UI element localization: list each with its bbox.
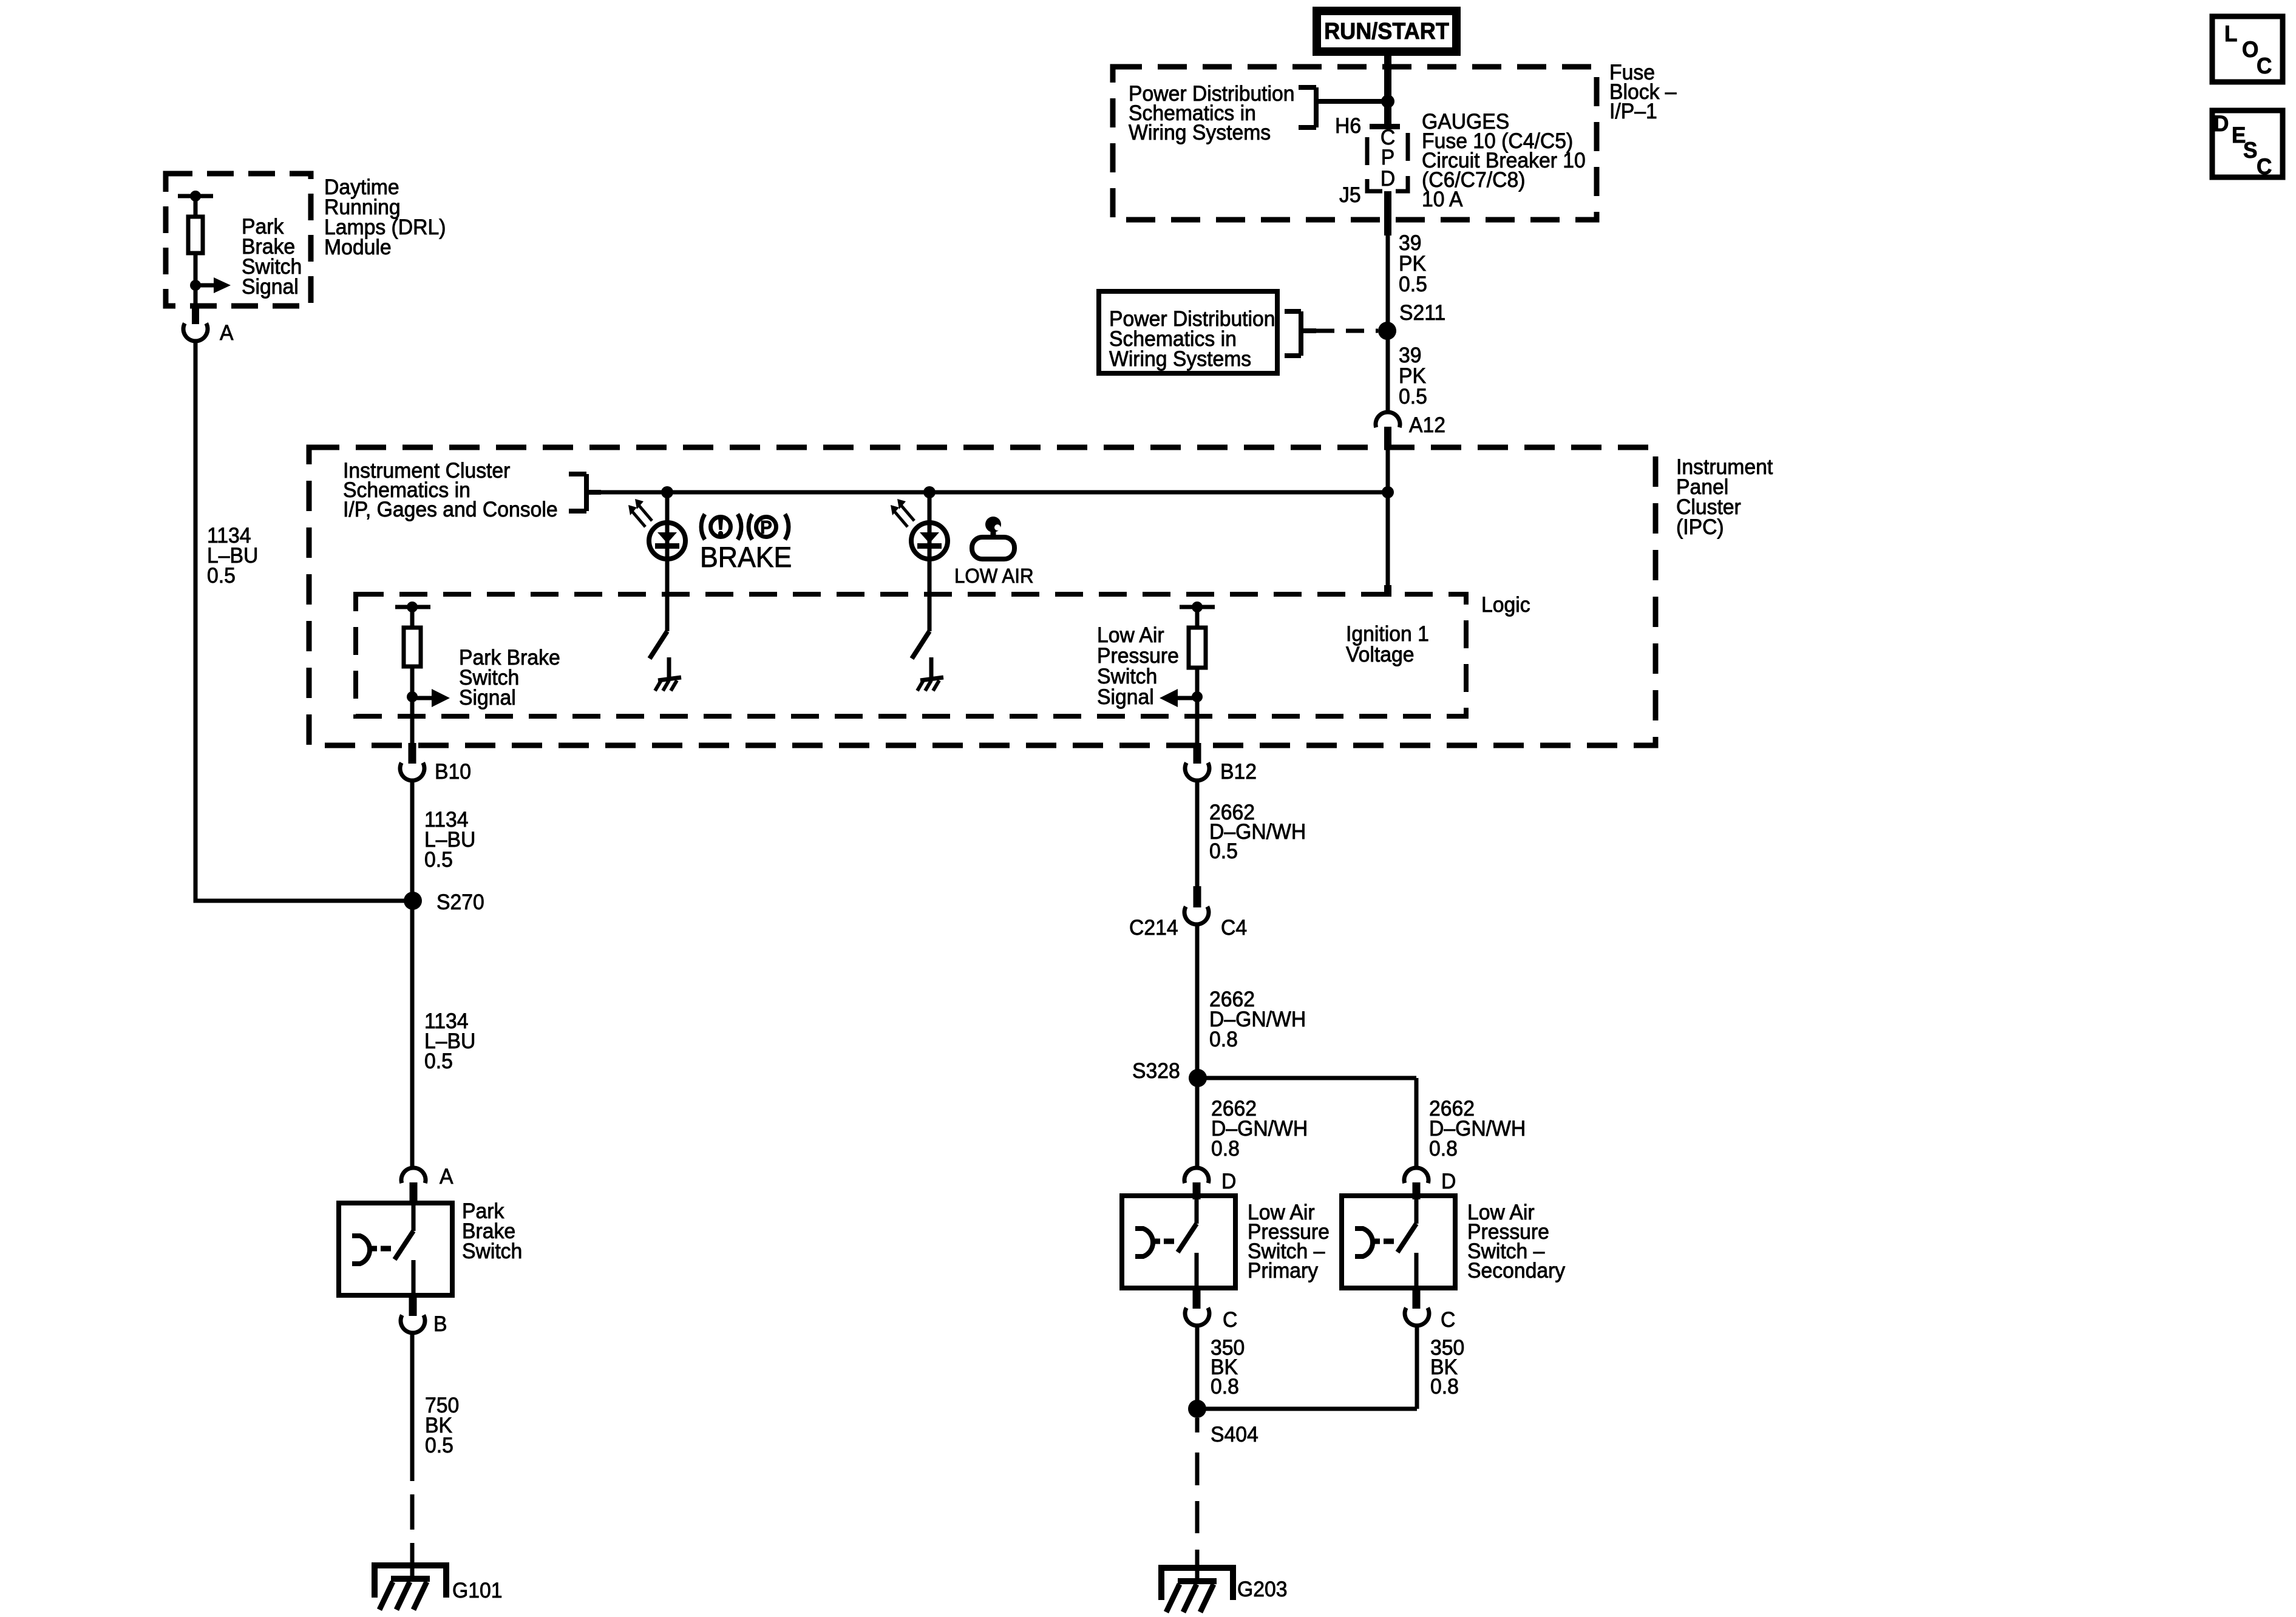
splice S328 (1189, 1069, 1207, 1087)
connector C (primary) (1193, 1288, 1201, 1309)
svg-text:(IPC): (IPC) (1676, 515, 1724, 539)
splice S211 (1378, 322, 1396, 340)
svg-text:S270: S270 (436, 890, 484, 914)
daytime running lamps (DRL) module dashed box (166, 174, 311, 306)
dashed wire S404 to G203 (1195, 1418, 1200, 1432)
inline connector C214 / C4 (1194, 886, 1201, 907)
connector A12 (1376, 412, 1400, 427)
node: low air lamp tap (923, 486, 936, 498)
svg-text:J5: J5 (1339, 183, 1361, 207)
LOC reference box (2212, 16, 2283, 82)
power distribution reference box (at S211) (1099, 291, 1277, 373)
bracket and dashed link to S211 (1299, 311, 1303, 356)
node + arrow: low air pressure switch signal (1192, 691, 1203, 702)
LED brake indicator (649, 523, 685, 559)
splice S404 (1197, 1407, 1417, 1411)
fuse/circuit-breaker CPD dashed element (1367, 133, 1408, 191)
svg-text:Signal: Signal (1097, 685, 1154, 709)
svg-text:0.5: 0.5 (424, 1049, 453, 1073)
wire DRL-A to S270 (195, 341, 413, 901)
wire bus to brake lamp (665, 492, 670, 631)
low air telltale icon (tank with gauge) (972, 517, 1014, 559)
connector B10 (409, 743, 416, 764)
svg-text:G101: G101 (452, 1579, 502, 1602)
svg-text:D: D (1381, 167, 1395, 191)
wire B12 to C214 (2662 D-GN/WH 0.5) (1195, 781, 1200, 887)
connector D (primary) (1184, 1168, 1209, 1183)
junction node on feed wire (1381, 95, 1394, 108)
svg-text:10 A: 10 A (1422, 188, 1463, 211)
svg-text:Module: Module (324, 236, 392, 259)
svg-text:D: D (1441, 1170, 1456, 1193)
svg-text:Wiring Systems: Wiring Systems (1109, 347, 1251, 371)
H6 terminal bar (1370, 124, 1400, 129)
brake lamp switch blade (650, 631, 667, 659)
svg-text:L: L (2224, 21, 2237, 46)
park brake switch box (339, 1203, 452, 1295)
ignition 1 voltage wire (1386, 449, 1390, 586)
low air lamp switch blade (912, 631, 929, 659)
connector D (secondary) (1404, 1168, 1428, 1183)
wire S270 to park brake switch (410, 901, 415, 1167)
brake telltale icon (711, 517, 731, 537)
ground G203 (1161, 1568, 1233, 1600)
svg-text:Voltage: Voltage (1346, 643, 1414, 666)
svg-text:C: C (2257, 53, 2272, 78)
svg-text:I/P–1: I/P–1 (1609, 100, 1657, 123)
svg-text:A: A (220, 321, 234, 345)
svg-text:D: D (2213, 110, 2229, 136)
node + arrow: park brake switch signal (407, 691, 418, 702)
svg-text:LOW AIR: LOW AIR (954, 564, 1034, 587)
connector B12 (1194, 743, 1201, 764)
branch wire to secondary switch (1198, 1076, 1416, 1080)
ground G101 (375, 1565, 446, 1598)
wire C primary to S404 (350 BK) (1195, 1326, 1200, 1409)
DESC reference box (2212, 110, 2283, 179)
svg-text:0.5: 0.5 (424, 848, 453, 872)
splice S270 (404, 892, 422, 910)
svg-text:Primary: Primary (1248, 1259, 1319, 1283)
svg-text:Wiring Systems: Wiring Systems (1129, 121, 1271, 144)
internal ground (low air lamp) (929, 657, 934, 679)
svg-text:S404: S404 (1211, 1423, 1258, 1446)
svg-text:B12: B12 (1220, 760, 1257, 784)
svg-text:A12: A12 (1409, 413, 1445, 437)
svg-text:0.5: 0.5 (425, 1434, 453, 1457)
wire J5 to S211 (ckt 39 PK) (1384, 191, 1391, 236)
park brake pull-up resistor (395, 605, 430, 609)
svg-text:0.5: 0.5 (1399, 385, 1427, 408)
low air pull-up resistor (1180, 605, 1215, 609)
connector A (DRL) (192, 307, 199, 324)
svg-text:0.5: 0.5 (207, 564, 236, 588)
svg-text:0.5: 0.5 (1209, 839, 1238, 863)
svg-text:C214: C214 (1129, 916, 1178, 940)
dashed wire to ground (410, 1494, 415, 1530)
RUN/START power feed box (1313, 7, 1461, 56)
svg-text:S211: S211 (1399, 301, 1445, 325)
svg-text:S328: S328 (1132, 1059, 1180, 1083)
svg-text:C: C (2257, 154, 2272, 179)
logic dashed box (356, 594, 1466, 716)
bus junction at ignition wire (1382, 486, 1394, 498)
svg-text:Signal: Signal (242, 275, 299, 299)
internal ground (brake lamp) (667, 657, 671, 679)
node: brake lamp tap (661, 486, 673, 498)
fuse block I/P-1 dashed box (1113, 67, 1597, 220)
connector A (park brake switch) (401, 1168, 426, 1183)
svg-text:I/P, Gages and Console: I/P, Gages and Console (343, 498, 558, 521)
lamp supply bus (589, 490, 1388, 495)
svg-text:D: D (1221, 1170, 1236, 1193)
svg-text:Switch: Switch (462, 1239, 522, 1263)
wire S328 to primary switch (1195, 1078, 1200, 1166)
wire B to G101 (750 BK) (410, 1333, 415, 1481)
bracket to lamp bus (584, 474, 589, 511)
svg-text:B10: B10 (435, 760, 471, 784)
connector B (park brake switch) (409, 1295, 417, 1316)
wire C4 to S328 (2662 D-GN/WH 0.8) (1195, 924, 1200, 1078)
svg-text:0.8: 0.8 (1209, 1028, 1238, 1051)
svg-text:C: C (1223, 1308, 1237, 1332)
svg-text:S: S (2243, 137, 2257, 163)
connector C (secondary) (1413, 1288, 1421, 1309)
wire B10 to S270 (1134 L-BU) (410, 781, 415, 901)
svg-text:P: P (1381, 146, 1394, 169)
svg-text:0.8: 0.8 (1211, 1375, 1239, 1398)
svg-text:Secondary: Secondary (1467, 1259, 1566, 1283)
svg-text:P: P (760, 517, 772, 538)
svg-text:BRAKE: BRAKE (700, 541, 792, 573)
low air pressure switch - secondary (1342, 1196, 1455, 1288)
DRL internal pull-up (178, 194, 213, 198)
svg-text:C4: C4 (1221, 916, 1247, 940)
svg-text:RUN/START: RUN/START (1324, 18, 1449, 44)
wire C secondary to S404 (1415, 1326, 1419, 1409)
low air pressure switch - primary (1122, 1196, 1235, 1288)
svg-text:0.8: 0.8 (1430, 1375, 1459, 1398)
svg-text:A: A (440, 1165, 453, 1188)
svg-text:Signal: Signal (459, 686, 516, 710)
svg-text:0.5: 0.5 (1399, 273, 1427, 296)
wire RUN/START to fuse H6 (1384, 56, 1391, 124)
svg-text:0.8: 0.8 (1211, 1137, 1240, 1161)
wire bus to low air lamp (928, 492, 932, 631)
svg-text:C: C (1441, 1308, 1455, 1332)
bracket to feed wire (1314, 87, 1319, 127)
node + arrow: park brake switch signal (DRL) (190, 280, 201, 291)
svg-text:Logic: Logic (1481, 593, 1530, 617)
LED low air indicator (911, 523, 948, 559)
svg-text:0.8: 0.8 (1429, 1137, 1458, 1161)
svg-text:B: B (433, 1312, 447, 1336)
svg-text:H6: H6 (1335, 114, 1361, 138)
svg-text:G203: G203 (1237, 1578, 1287, 1601)
instrument panel cluster dashed box (309, 447, 1656, 745)
